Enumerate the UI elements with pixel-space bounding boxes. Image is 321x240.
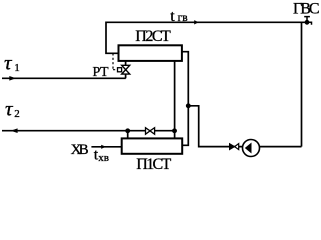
svg-text:2: 2 — [14, 108, 20, 120]
svg-text:хв: хв — [98, 152, 109, 164]
svg-text:t: t — [170, 8, 175, 25]
svg-text:РТ: РТ — [93, 65, 109, 80]
svg-text:гв: гв — [178, 12, 189, 24]
svg-text:1: 1 — [14, 62, 20, 74]
svg-text:ХВ: ХВ — [71, 142, 89, 158]
svg-text:ГВС: ГВС — [293, 1, 320, 18]
svg-text:П2СТ: П2СТ — [135, 28, 171, 45]
svg-text:П1СТ: П1СТ — [136, 156, 171, 170]
